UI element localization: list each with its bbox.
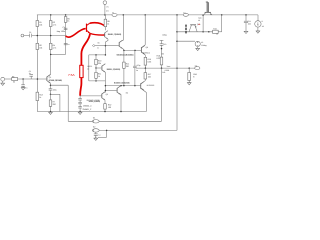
ground under C1 [22, 86, 24, 87]
capacitor C9 comp [133, 65, 137, 67]
wire top rail corner to load [257, 15, 259, 21]
svg-text:b1: b1 [198, 19, 200, 22]
transistor Q10 bias [190, 24, 196, 26]
wire Q11 base bias drop [202, 15, 204, 32]
wire bias line y=31.8 [177, 31, 213, 33]
svg-text:1k: 1k [39, 96, 41, 99]
svg-text:RECHECK_C(X2N): RECHECK_C(X2N) [87, 99, 100, 102]
red transistor Q2 [86, 24, 88, 32]
wire C10 down [161, 45, 163, 57]
svg-text:Q6: Q6 [106, 93, 108, 96]
ground under C11 [244, 30, 248, 32]
ground load [187, 82, 191, 84]
wire Q11 base up [206, 2, 208, 12]
wire Q7 collector to rail [119, 40, 123, 42]
transistor Q7 driver upper [118, 42, 120, 46]
resistor R11 [95, 72, 98, 78]
wire R12 to gnd rail [104, 109, 106, 111]
wire cap col x=246 [245, 15, 247, 21]
wire column x=50.7 [50, 15, 52, 21]
wire R18 to gnd [188, 80, 190, 82]
wire ground rail y=111.5 [37, 111, 146, 113]
junction input nodes [22, 78, 24, 80]
svg-text:V4: V4 [201, 41, 203, 44]
wire R17 top to out rail [144, 68, 146, 73]
svg-text:470p: 470p [136, 64, 140, 67]
wire Q8 collector to rail [142, 45, 146, 48]
capacitor C10 [160, 43, 164, 45]
wire I1 to gnd [257, 27, 259, 31]
svg-text:220: 220 [126, 65, 129, 68]
svg-text:7.5A: 7.5A [68, 73, 75, 77]
svg-text:x2: x2 [87, 67, 89, 70]
red wire base feed [66, 29, 86, 38]
svg-text:1u: 1u [29, 72, 31, 75]
probe F2 on rail [183, 13, 188, 16]
wire tee y=85.6 right [105, 85, 140, 87]
wire fb row y=130.4 [99, 129, 177, 131]
capacitor C4 on col3 [64, 27, 68, 29]
capacitor C3 tail [49, 88, 53, 90]
wire col x=96 lower [95, 68, 97, 72]
wire Q8 emitter to R15 [142, 52, 146, 55]
wire col x=161.5 below rail [161, 68, 163, 121]
net port oval fb1 [92, 120, 99, 123]
svg-text:BC546B_C(BC546B): BC546B_C(BC546B) [49, 79, 62, 82]
svg-text:1n: 1n [67, 43, 69, 46]
capacitor C6 series y=35.5 [29, 34, 32, 38]
wire R15 to out rail [144, 65, 146, 68]
svg-text:1n: 1n [25, 86, 27, 89]
wire base row to Q4b [105, 44, 119, 46]
ground at x=80.1 [78, 111, 82, 113]
wire comp col x=134.9 [134, 50, 136, 66]
resistor R10 [95, 59, 98, 64]
svg-text:Q11: Q11 [198, 17, 201, 20]
svg-text:F2: F2 [183, 11, 185, 14]
svg-text:Q8: Q8 [146, 46, 148, 49]
wire Q3 emitter down [105, 39, 108, 42]
svg-text:10k: 10k [39, 24, 42, 27]
svg-text:2N5401_C: 2N5401_C [83, 108, 92, 111]
red wire emitter down [81, 34, 90, 66]
wire column x=37.3 [36, 15, 38, 21]
junction dots wire1 [50, 111, 52, 113]
wire R16 to out rail [161, 65, 163, 68]
wire tee y=54.9 left [89, 54, 106, 56]
resistor R16 [160, 57, 163, 65]
ground under V4 [197, 47, 199, 49]
svg-text:fb1: fb1 [93, 117, 96, 120]
svg-text:0.33: 0.33 [157, 57, 161, 60]
transistor Q9 output lower [140, 83, 142, 88]
wire load drop [188, 68, 190, 72]
resistor R9 VAS load [104, 19, 107, 27]
wire output rail y=68.1 [136, 67, 195, 69]
ground under C12 [94, 137, 98, 139]
svg-text:4.7k: 4.7k [53, 46, 57, 49]
wire fb row y=120.9 [68, 120, 161, 122]
svg-text:I1: I1 [262, 20, 264, 23]
svg-text:2N5401_C(2N5401): 2N5401_C(2N5401) [108, 33, 122, 36]
wire C7 to C8 [79, 100, 81, 102]
svg-text:MJE15035_C(MJE15035): MJE15035_C(MJE15035) [114, 81, 130, 84]
wire bias col x=123.9 [123, 50, 125, 62]
wire Q6 collector up [102, 92, 105, 94]
svg-text:MJE15034_C(MJE15034): MJE15034_C(MJE15034) [117, 54, 134, 57]
wire red-end node down [79, 96, 81, 99]
svg-text:100: 100 [148, 76, 151, 79]
svg-text:100n: 100n [61, 30, 65, 33]
svg-text:1Meg: 1Meg [162, 33, 167, 36]
wire col x=96 upper [95, 55, 97, 59]
wire Q1 emitter node [47, 81, 51, 83]
source V2 circle left [21, 34, 24, 37]
wire node-row y=35.5 [24, 35, 66, 37]
wire tee (50.7,54.4) to col3 [51, 53, 66, 55]
wire V4 line y=41.2 [177, 40, 195, 42]
svg-text:0.33: 0.33 [148, 61, 152, 64]
resistor R5 col3 [64, 17, 67, 23]
node dots on top rail [50, 14, 52, 16]
net flag bar x=161.5 [160, 39, 164, 41]
wire input to R6 [5, 78, 12, 80]
svg-text:100: 100 [108, 106, 111, 109]
red wire below R8 [80, 78, 81, 96]
capacitor C5 on col3 [64, 42, 68, 44]
red resistor R8 [80, 65, 83, 77]
wire base to Q5 [96, 67, 101, 69]
svg-text:24: 24 [106, 9, 108, 12]
wire Q6 base [80, 95, 101, 97]
wire R11 to y=80.9 [95, 78, 97, 81]
svg-text:100u: 100u [53, 89, 57, 92]
resistor R1 top-left [36, 21, 39, 27]
svg-text:R13: R13 [39, 93, 42, 96]
svg-text:12Meg: 12Meg [201, 44, 207, 47]
ground under V3 [2, 81, 4, 83]
source V4 circle [195, 41, 200, 46]
transistor Q3 vas upper [104, 33, 106, 37]
svg-text:220: 220 [53, 103, 56, 106]
svg-text:C6: C6 [29, 31, 31, 34]
svg-text:V1: V1 [106, 6, 108, 9]
resistor R19 series bias [213, 30, 219, 33]
wire C12 loop [106, 130, 108, 137]
wire Q9 collector up [141, 81, 146, 84]
probe F1 on rail [112, 13, 117, 16]
red wire emitter right [90, 33, 105, 35]
source V3 input circle [1, 77, 5, 81]
transistor Q12 [116, 88, 118, 92]
svg-text:1k: 1k [216, 33, 218, 36]
svg-text:22k: 22k [98, 62, 101, 65]
wire tail col [50, 90, 52, 100]
source V1 top [103, 1, 107, 5]
svg-text:Vb: Vb [97, 42, 99, 45]
label Q11 vertical [208, 2, 209, 12]
svg-text:1k: 1k [107, 22, 109, 25]
wire bias line to col 221.7 [218, 31, 222, 33]
red wire collector to VAS node [90, 23, 106, 27]
resistor R4 col2 lower [49, 43, 52, 49]
resistor R3 col2 upper [49, 21, 52, 27]
svg-text:NJL: NJL [162, 71, 165, 74]
transistor Q6 feedback [101, 94, 103, 98]
wire R10 to base node [95, 65, 97, 68]
wire riser to Q8 emitter [145, 93, 147, 112]
wire tee y=80.9 [89, 80, 106, 82]
wire Q12 collector up [117, 86, 121, 89]
svg-text:F1: F1 [112, 11, 114, 14]
transistor Q1 [46, 77, 48, 81]
wire Q1 emitter right feedback [51, 84, 69, 86]
wire Q6 emitter down [102, 98, 105, 100]
transistor Q11 pass [205, 11, 211, 13]
svg-text:1u: 1u [98, 134, 100, 137]
svg-text:4x: 4x [136, 69, 138, 72]
svg-text:C11: C11 [248, 20, 251, 23]
resistor R6 input series [12, 78, 18, 81]
svg-text:ib: ib [97, 46, 98, 49]
svg-text:2N5551_C(2N5551): 2N5551_C(2N5551) [107, 68, 121, 71]
resistor R2 left col1 lower [36, 43, 39, 49]
svg-text:MJE15035: MJE15035 [147, 84, 155, 87]
svg-text:M1: M1 [126, 91, 129, 94]
ground at x=50.5 [49, 111, 53, 113]
load circle I1 [255, 21, 261, 27]
resistor R18 load 8ohm [188, 73, 191, 81]
svg-text:R19: R19 [213, 27, 216, 30]
resistor R13 bottom col1 [36, 92, 39, 100]
wire C11 to gnd [245, 23, 247, 32]
capacitor C12 under fb2 [95, 132, 97, 134]
svg-text:Meg: Meg [57, 30, 61, 33]
wire Q5 collector up [102, 64, 105, 66]
wire C8 to gnd rail [79, 104, 81, 107]
wire R14 down to base line [123, 68, 125, 85]
net probe oval out [195, 67, 200, 70]
svg-text:C10: C10 [163, 43, 166, 46]
net port oval fb2 [92, 129, 99, 132]
resistor R7 tail [49, 100, 52, 106]
svg-text:2k: 2k [13, 81, 15, 84]
wire right riser x=177 [176, 15, 178, 130]
wire Q7 emitter down [119, 46, 123, 48]
svg-text:10k: 10k [39, 46, 42, 49]
svg-text:2N5551_C: 2N5551_C [83, 104, 92, 107]
resistor R14 bias [123, 62, 126, 68]
net port flag vb [92, 44, 95, 46]
wire bias row y=50.4 [124, 49, 141, 51]
wire top +rail y=14.9 [37, 14, 258, 16]
wire Q12 emitter down [117, 92, 121, 94]
svg-text:Q1: Q1 [49, 76, 52, 79]
svg-text:4.7k: 4.7k [53, 24, 57, 27]
svg-text:8: 8 [193, 76, 194, 79]
junction dots out rail [145, 67, 147, 69]
svg-text:Vout: Vout [167, 65, 171, 68]
wire C9 down to y=85.6 [134, 68, 136, 86]
wire R9 to node [104, 27, 106, 31]
svg-text:R6: R6 [12, 75, 14, 78]
svg-text:10m: 10m [248, 23, 252, 26]
wire tail tee right [51, 93, 60, 95]
wire input node row [18, 78, 47, 80]
svg-text:fb2: fb2 [93, 126, 96, 129]
svg-text:C4: C4 [62, 26, 64, 29]
transistor Q8 output upper [140, 47, 142, 52]
capacitor C7 [78, 98, 82, 100]
junction dots riser [176, 31, 178, 33]
wire Q5 emitter down [102, 70, 105, 72]
resistor R17 lower [144, 73, 147, 79]
wire VAS col top [104, 15, 106, 19]
capacitor C8b [78, 106, 82, 108]
wire Q12 base [105, 90, 116, 92]
capacitor C8 [78, 101, 82, 103]
wire Q9 emitter down [141, 88, 147, 92]
label vertical under F2 [185, 25, 187, 27]
capacitor C11 [244, 20, 248, 22]
svg-text:1k: 1k [67, 20, 69, 23]
junction dots y=35.5 [37, 35, 39, 37]
capacitor C2 above input wire [30, 76, 32, 79]
wire col x=88.8 [88, 55, 90, 81]
wire R7 to gnd rail [50, 106, 52, 111]
svg-text:1k: 1k [98, 75, 100, 78]
capacitor C1 input shunt [22, 79, 24, 85]
wire Q1 collector to col2 [47, 75, 51, 77]
transistor Q5 vas lower [101, 66, 103, 70]
resistor R12 under Q6 [104, 104, 107, 109]
ground under I1 [256, 30, 260, 32]
resistor R15 emitter [144, 57, 147, 65]
wire column x=65.6 [65, 15, 67, 17]
